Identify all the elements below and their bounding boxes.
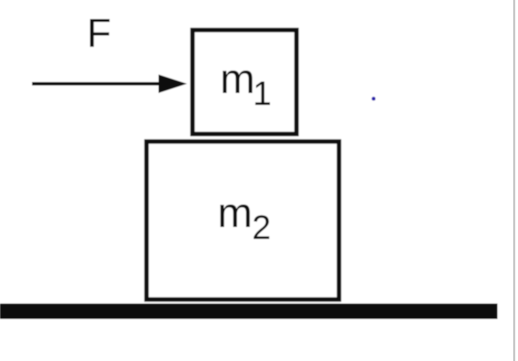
svg-text:m: m [220,55,255,102]
block m2 [147,142,340,300]
gray page edge line [513,0,515,361]
ground [0,304,498,320]
label m2 [218,189,271,247]
svg-text:F: F [87,12,111,56]
svg-text:2: 2 [252,209,271,247]
force arrow shaft [32,82,162,85]
svg-text:1: 1 [253,75,272,113]
svg-text:m: m [218,189,253,236]
force arrowhead [159,75,188,94]
label m1 [220,55,272,113]
blue dot [372,97,376,101]
block m1 [193,30,297,134]
